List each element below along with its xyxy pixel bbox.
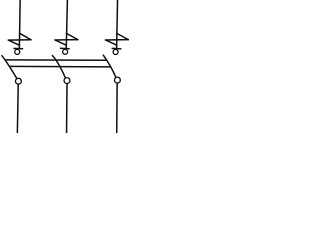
hinge contact circle pole 3 xyxy=(114,77,120,83)
release flag pole 2 lower hypotenuse xyxy=(55,40,66,45)
release flag pole 2 mid bar xyxy=(55,39,78,41)
release flag pole 1 lower hypotenuse xyxy=(8,40,19,45)
fixed contact circle pole 2 xyxy=(63,49,68,54)
wire pole 2 top feed xyxy=(66,0,67,49)
wire pole 1 top feed xyxy=(18,0,21,49)
release flag pole 1 upper hypotenuse xyxy=(20,33,31,39)
release flag pole 1 mid bar xyxy=(8,39,31,41)
wire pole 3 bottom xyxy=(116,83,118,133)
wire pole 3 top feed xyxy=(116,0,119,49)
release flag pole 2 upper hypotenuse xyxy=(66,33,78,39)
hinge contact circle pole 2 xyxy=(64,78,70,84)
fixed contact circle pole 3 xyxy=(113,50,118,55)
switch blade pole 3 xyxy=(103,55,116,78)
linkage bar lower rail xyxy=(9,65,110,68)
fixed contact circle pole 1 xyxy=(15,49,20,54)
linkage bar upper rail xyxy=(5,59,107,61)
switch blade pole 2 xyxy=(52,55,66,78)
fixed contact crossbar pole 3 xyxy=(112,47,122,50)
release flag pole 3 upper hypotenuse xyxy=(117,33,128,39)
hinge contact circle pole 1 xyxy=(15,78,21,84)
release flag pole 3 lower hypotenuse xyxy=(106,40,117,45)
wire pole 1 bottom xyxy=(16,84,19,133)
release flag pole 3 mid bar xyxy=(106,39,129,41)
switch blade pole 1 xyxy=(2,55,18,79)
wire pole 2 bottom xyxy=(66,84,68,133)
fixed contact crossbar pole 1 xyxy=(13,47,23,49)
fixed contact crossbar pole 2 xyxy=(60,47,70,49)
